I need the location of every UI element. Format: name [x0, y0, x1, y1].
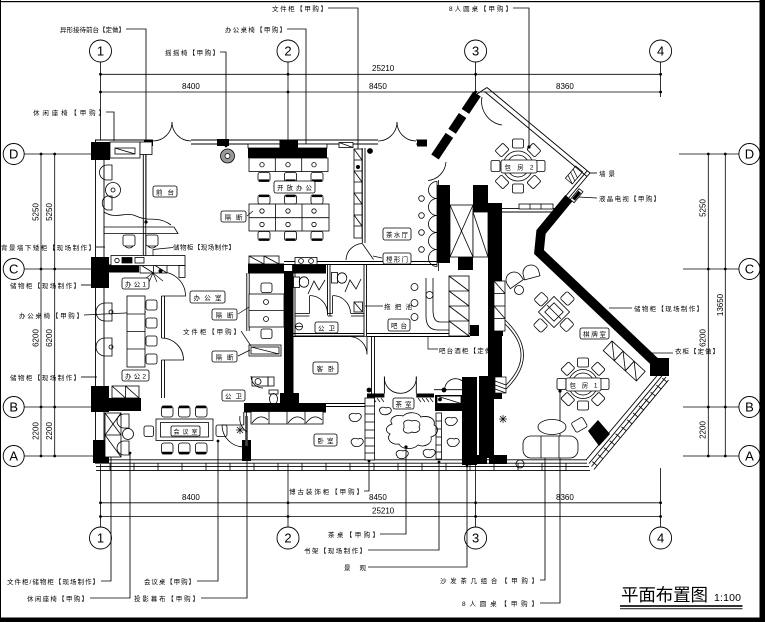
svg-text:A: A — [745, 449, 754, 464]
wall black right of 茶室 — [479, 376, 494, 458]
dimension tick dots — [40, 73, 727, 518]
wall 包房2 right diagonal — [487, 88, 590, 174]
toilet 公卫1 black arm — [293, 265, 326, 274]
svg-text:书架【现场制作】: 书架【现场制作】 — [304, 546, 366, 555]
leader 休闲座椅 bottom — [90, 453, 130, 598]
svg-text:拖把池: 拖把池 — [384, 302, 413, 311]
leader lines — [81, 8, 673, 603]
dimension line right inner — [707, 154, 709, 456]
svg-text:8400: 8400 — [182, 493, 200, 502]
reception waiting chairs — [100, 165, 112, 180]
svg-text:6200: 6200 — [699, 329, 708, 347]
sofa 包房1 — [516, 417, 588, 468]
svg-text:B: B — [745, 400, 754, 415]
svg-text:异形接待前台【定做】: 异形接待前台【定做】 — [60, 25, 125, 34]
svg-text:办公桌椅【甲购】: 办公桌椅【甲购】 — [19, 311, 83, 320]
茶水厅 semicircle decor — [438, 180, 440, 271]
conference shelf — [105, 413, 121, 457]
grid line vertical 3 — [475, 62, 477, 96]
title 平面布置图 — [620, 585, 743, 609]
svg-text:1: 1 — [97, 44, 104, 59]
leader 休闲座椅 left — [106, 112, 114, 141]
door 茶室 double butterfly — [384, 377, 400, 394]
svg-text:棋牌室: 棋牌室 — [583, 330, 607, 339]
mop sink 拖把池 — [354, 302, 363, 312]
round table 包房2 — [491, 139, 545, 193]
door 客卧 — [349, 337, 367, 355]
grid line vertical 2 — [287, 62, 289, 140]
wall black C-left arm — [103, 265, 139, 273]
衣柜 wardrobe boxes — [603, 341, 645, 381]
dimension texts top — [182, 64, 574, 516]
wine cabinet hatched — [449, 276, 469, 336]
leader 墙景 — [589, 172, 597, 174]
dimension texts left rotated — [32, 199, 725, 440]
svg-text:8360: 8360 — [556, 493, 574, 502]
书架 strip — [436, 413, 442, 459]
grid line horizontal A — [24, 455, 96, 457]
conference chairs bottom — [162, 443, 174, 454]
svg-text:液晶电视【甲购】: 液晶电视【甲购】 — [599, 194, 660, 203]
conference chairs top — [162, 406, 174, 417]
pen cabinet on top wall — [339, 143, 353, 148]
door arc from band end — [428, 162, 446, 181]
lounge chairs 棋牌室 top — [503, 269, 524, 289]
floor drain circle — [296, 323, 303, 330]
svg-text:8450: 8450 — [369, 493, 387, 502]
leader 文件柜储物柜 bottom — [101, 453, 111, 581]
wall black elevator bottom — [458, 257, 473, 270]
wall black bars 茶室 door — [367, 394, 384, 398]
wall C top of toilets — [284, 261, 437, 263]
文件柜 shelf in 办公室 — [249, 345, 281, 356]
svg-text:1:100: 1:100 — [714, 592, 741, 604]
svg-text:吧台酒柜【定做】: 吧台酒柜【定做】 — [439, 346, 499, 355]
leader 沙发茶几组合 — [540, 447, 545, 580]
svg-text:8360: 8360 — [556, 82, 574, 91]
spine2 shelf notch — [494, 281, 505, 331]
svg-text:25210: 25210 — [372, 64, 395, 73]
svg-text:5250: 5250 — [699, 199, 708, 217]
door top-left double entrance — [153, 88, 524, 448]
door 办公1 — [162, 272, 186, 296]
sink counter 公卫1 — [295, 258, 317, 265]
shelf boxes right of C arm — [140, 265, 167, 274]
wall top segment 3 — [416, 139, 427, 141]
border frame top — [0, 1, 765, 2]
mahjong table 棋牌室 — [521, 279, 587, 345]
shelf row above C-mid arm — [249, 256, 279, 264]
toilet doors — [309, 296, 311, 314]
door 会议室 — [222, 425, 244, 447]
wall toilets 公卫1 — [292, 264, 294, 336]
svg-text:包房2: 包房2 — [505, 163, 534, 172]
border frame right — [760, 0, 765, 622]
rock garden 景观 — [386, 413, 437, 449]
leader 书架 — [368, 462, 439, 550]
wall black top door jamb — [217, 139, 229, 146]
apex closing line — [477, 88, 487, 95]
wall black chevron — [539, 198, 655, 362]
wall 茶水厅 left vertical — [361, 148, 363, 243]
reception cabinet — [110, 142, 140, 158]
svg-text:休闲座椅【甲购】: 休闲座椅【甲购】 — [27, 594, 88, 603]
shelf with diagonal on black arm — [437, 396, 461, 404]
svg-text:储物柜【现场制作】: 储物柜【现场制作】 — [10, 281, 80, 290]
svg-text:5250: 5250 — [45, 203, 54, 221]
wall black top jamb near band — [417, 140, 427, 147]
wall 卧室 bottom-right thin — [326, 403, 374, 405]
svg-text:8400: 8400 — [182, 82, 200, 91]
border frame left — [0, 0, 1, 622]
svg-text:2200: 2200 — [45, 422, 54, 440]
door 办公2 — [162, 338, 184, 360]
svg-text:会议室: 会议室 — [174, 428, 198, 436]
wall 客卧 right — [371, 336, 373, 403]
wall 茶室 door jamb leaf lines — [383, 377, 385, 394]
leader 办公桌椅 top — [287, 29, 306, 151]
wall thin below corner 墙景 — [567, 173, 590, 200]
墙景 hatched piece — [565, 166, 582, 184]
wall 办公室 left — [246, 273, 248, 331]
svg-text:B: B — [9, 400, 18, 415]
toilet 公卫2 fixtures — [252, 377, 268, 386]
grid line vertical 1 — [100, 62, 102, 140]
projection screen — [245, 416, 248, 446]
door lounge double small — [434, 379, 470, 390]
wall top segment 2 — [191, 139, 378, 141]
shelf boxes above B arm — [112, 386, 139, 398]
conference table — [156, 419, 213, 441]
玄关 hatched block — [495, 377, 506, 393]
file cabinet column — [354, 149, 362, 238]
wall diagonal bottom-right window — [586, 371, 661, 460]
border frame bottom — [0, 618, 765, 622]
open office cluster2 — [249, 204, 329, 231]
dimension line left outer — [54, 154, 56, 456]
leader 背景墙下矮柜 — [96, 246, 105, 248]
toilet wc cell1 — [294, 277, 300, 288]
博古架 ladder — [365, 398, 375, 460]
wall black 会议室 right bottom — [242, 440, 251, 461]
grid line vertical 4 — [660, 62, 662, 97]
sill hatch ticks — [369, 398, 433, 402]
wall black C-mid arm — [248, 264, 284, 274]
wall black diagonal band 包房2 left — [435, 94, 477, 157]
leader 博古装饰柜 — [364, 461, 369, 491]
reception counter 异形 — [104, 212, 171, 225]
svg-text:文件柜【甲购】: 文件柜【甲购】 — [272, 4, 327, 13]
svg-text:8人圆桌【甲购】: 8人圆桌【甲购】 — [462, 599, 538, 608]
svg-text:会议桌【甲购】: 会议桌【甲购】 — [144, 577, 195, 586]
svg-text:办公2: 办公2 — [125, 372, 146, 381]
svg-text:博古装饰柜【甲购】: 博古装饰柜【甲购】 — [289, 487, 363, 496]
low cabinet under背景墙 — [111, 256, 185, 266]
bar counter — [426, 278, 449, 330]
svg-text:D: D — [745, 147, 754, 162]
dimension line top total 25210 — [101, 73, 661, 75]
wall black left bottom corner — [93, 440, 109, 463]
wall top segment 1 — [95, 139, 153, 141]
leader 衣柜 — [646, 352, 673, 354]
svg-text:C: C — [9, 262, 18, 277]
wall black top-left corner — [91, 142, 110, 160]
svg-text:5250: 5250 — [32, 203, 41, 221]
door arc 卧室 — [240, 416, 247, 432]
leader 储物柜 right — [609, 307, 632, 309]
wall bottom — [95, 459, 587, 461]
svg-text:C: C — [745, 262, 754, 277]
grid line horizontal C — [24, 268, 93, 270]
svg-text:4: 4 — [657, 44, 664, 59]
door 樘形门 corner — [346, 244, 362, 261]
wall TV console top — [490, 208, 556, 210]
svg-text:平面布置图: 平面布置图 — [621, 585, 708, 605]
svg-text:6200: 6200 — [32, 329, 41, 347]
light sparkle symbols — [236, 415, 507, 434]
wall black B-mid — [244, 403, 326, 413]
wall 办公 right — [161, 296, 163, 338]
wall 客卧 top — [293, 333, 349, 335]
svg-text:25210: 25210 — [372, 507, 395, 516]
bar stools — [411, 284, 418, 291]
svg-text:D: D — [9, 147, 18, 162]
svg-text:2: 2 — [284, 531, 291, 546]
wall black chevron end — [650, 358, 669, 376]
svg-text:6200: 6200 — [45, 329, 54, 347]
leader 摇摇椅 — [220, 52, 226, 146]
wall black diagonal block on window — [588, 420, 610, 446]
svg-text:2200: 2200 — [32, 422, 41, 440]
svg-text:储物柜【现场制作】: 储物柜【现场制作】 — [634, 304, 703, 313]
wall left outer — [95, 140, 97, 463]
conference side chairs — [117, 414, 129, 428]
open office desk row1 — [248, 144, 327, 148]
dimension line top spans — [101, 91, 661, 93]
wall black elevator left — [437, 185, 450, 263]
svg-text:茶水厅: 茶水厅 — [386, 230, 409, 239]
wall black left B — [91, 386, 109, 412]
leader 储物柜 left upper — [81, 284, 97, 286]
grid line horizontal B — [24, 406, 93, 408]
dimension line bottom spans — [101, 502, 661, 504]
办公1/2 desks — [127, 296, 145, 367]
dimension line left inner — [40, 154, 42, 456]
svg-text:樘形门: 樘形门 — [386, 255, 408, 264]
small label leaders inside plan — [153, 211, 438, 356]
door main entrance double — [378, 122, 397, 141]
wall black 茶室 top arm — [435, 395, 469, 411]
leader 文件柜 top — [328, 8, 358, 162]
leader 景观 — [368, 466, 467, 567]
TV console below wall — [519, 204, 553, 209]
window ticks bottom sill — [110, 463, 566, 471]
conference chair right — [216, 425, 227, 437]
toilet cells bottom wall — [295, 313, 310, 315]
svg-text:摇摇椅【甲购】: 摇摇椅【甲购】 — [165, 48, 219, 57]
wall black elevator top-right — [473, 185, 488, 212]
wall black spine2 — [488, 203, 502, 399]
dimension line bottom total 25210 — [101, 516, 661, 518]
wall black 茶室 right — [462, 377, 477, 465]
door arc curved partition 棋牌室 — [504, 319, 524, 391]
svg-text:2200: 2200 — [699, 421, 708, 439]
reception guest chairs — [123, 235, 135, 246]
leader end dots — [110, 145, 562, 468]
door 包房2 apex — [482, 97, 502, 125]
办公室 desks — [249, 294, 284, 327]
grid line horizontal D — [24, 153, 96, 155]
window ticks diagonal sill — [592, 378, 667, 465]
round table 包房1 — [557, 358, 609, 410]
svg-text:办公1: 办公1 — [125, 280, 146, 289]
wall black bar top — [470, 325, 479, 336]
hinge dots 茶室 door — [367, 388, 372, 393]
leader 储物柜 left lower — [81, 376, 97, 378]
svg-text:办公桌椅【甲购】: 办公桌椅【甲购】 — [225, 25, 286, 34]
wardrobe row 卧室 — [251, 412, 323, 425]
svg-text:8450: 8450 — [369, 82, 387, 91]
toilet wc cell2 — [332, 273, 338, 284]
svg-text:储物柜【现场制作】: 储物柜【现场制作】 — [10, 373, 80, 382]
svg-text:文件柜/储物柜【现场制作】: 文件柜/储物柜【现场制作】 — [7, 577, 99, 586]
wall black bottom blocks — [464, 455, 487, 464]
elevator shaft — [450, 205, 473, 257]
svg-text:3: 3 — [472, 44, 479, 59]
svg-text:2: 2 — [284, 44, 291, 59]
dimension line right outer — [724, 154, 726, 456]
wall black spine1 — [284, 271, 294, 398]
window sill bottom — [96, 465, 589, 467]
svg-text:储物柜【现场制作】: 储物柜【现场制作】 — [173, 243, 235, 252]
rocking chair 摇摇椅 — [221, 149, 235, 163]
TV on chevron wall — [570, 189, 583, 203]
wall reception partition — [142, 144, 144, 256]
leader 8人圆桌 top — [513, 8, 529, 148]
svg-text:13650: 13650 — [716, 293, 725, 316]
conference chair left — [144, 426, 154, 437]
svg-text:3: 3 — [472, 531, 479, 546]
svg-text:办公室: 办公室 — [194, 293, 223, 302]
sill diagonal bottom-right — [592, 377, 667, 467]
svg-text:A: A — [9, 449, 18, 464]
wall black left C — [91, 257, 109, 288]
leader 8人圆桌 bottom — [540, 391, 560, 603]
svg-text:包房1: 包房1 — [570, 381, 598, 390]
leader 液晶电视 — [578, 197, 597, 198]
leader 会议桌 — [197, 441, 218, 581]
svg-text:4: 4 — [657, 531, 664, 546]
wall 会议室 right — [243, 412, 245, 425]
leader 茶桌 — [380, 447, 406, 534]
svg-text:1: 1 — [97, 531, 104, 546]
leader 投影幕布 — [201, 449, 247, 598]
svg-text:文件柜【甲购】: 文件柜【甲购】 — [183, 327, 240, 336]
svg-text:背景墙下矮柜【现场制作】: 背景墙下矮柜【现场制作】 — [1, 243, 95, 252]
svg-text:衣柜【定做】: 衣柜【定做】 — [675, 347, 719, 356]
leader 办公桌椅 left — [84, 312, 146, 315]
svg-text:投影幕布【甲购】: 投影幕布【甲购】 — [134, 594, 199, 603]
svg-text:8人圆桌【甲购】: 8人圆桌【甲购】 — [449, 4, 512, 13]
leader 异形接待前台 — [126, 29, 146, 223]
wall black B-left arm — [104, 398, 141, 411]
